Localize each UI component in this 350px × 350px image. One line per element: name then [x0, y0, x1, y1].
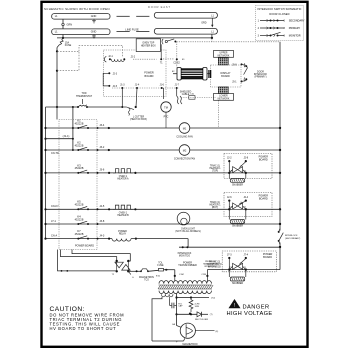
wire GRD arrow [211, 18, 213, 26]
svg-text:45222B: 45222B [75, 217, 84, 221]
svg-text:TRANSFORMER: TRANSFORMER [178, 264, 197, 267]
wire GRN link 2 [62, 26, 64, 29]
svg-text:TM: TM [164, 105, 168, 109]
svg-text:CAP: CAP [178, 305, 183, 308]
svg-text:THERMOSTAT: THERMOSTAT [76, 95, 93, 98]
node MON b [186, 246, 188, 248]
node J1-3 bottom [121, 106, 123, 108]
svg-text:GRN: GRN [67, 24, 73, 27]
relay K1 [75, 118, 105, 129]
capacitor HV CAP [169, 299, 171, 306]
svg-text:SNUBBER: SNUBBER [232, 283, 243, 285]
svg-text:J2-2: J2-2 [227, 156, 232, 159]
node B3 [56, 106, 58, 108]
svg-text:J4-5: J4-5 [99, 204, 105, 208]
motor M1 cooling fan [179, 123, 190, 134]
danger triangle [229, 299, 241, 308]
svg-text:C1M: C1M [179, 274, 184, 276]
wire row K4 [46, 223, 281, 225]
wire HV rail top [177, 297, 192, 299]
connector rail P2 left [52, 29, 110, 35]
ground G2 [92, 34, 96, 38]
node HV4 [190, 313, 192, 315]
wire row TOD left [46, 106, 79, 108]
wire heater drop [176, 42, 178, 68]
svg-text:J2-6: J2-6 [227, 196, 232, 199]
wire rail2 drop [211, 34, 213, 38]
node bus right y209.3 [279, 208, 281, 210]
pin J1-3 [121, 87, 123, 89]
svg-text:TRIAC (1): TRIAC (1) [210, 164, 221, 167]
wire row K7 [46, 238, 113, 240]
wire row K2 [46, 149, 281, 151]
svg-text:HEATER A: HEATER A [117, 178, 129, 181]
node A-J11 [44, 138, 46, 140]
svg-text:45222B: 45222B [75, 121, 84, 125]
svg-text:FUSE: FUSE [65, 44, 72, 47]
node K1 junction [108, 127, 110, 129]
wire FA lead [176, 314, 178, 326]
enclosure flag [57, 51, 79, 70]
svg-text:(F): (F) [216, 331, 219, 333]
inductor power relay coil [112, 239, 131, 242]
wire lower network drop [218, 100, 220, 127]
wire triac loop 2 [61, 250, 117, 262]
svg-text:HEATER B: HEATER B [117, 214, 129, 217]
wire bus B lower [56, 107, 58, 120]
svg-text:SECONDARY: SECONDARY [289, 20, 305, 23]
svg-text:BOARD: BOARD [259, 198, 268, 201]
node fuse out [165, 269, 167, 271]
component LOWER NETWORK label [214, 94, 234, 101]
svg-text:(HEAT OF BOX): (HEAT OF BOX) [130, 118, 147, 121]
svg-text:J1-6: J1-6 [159, 84, 164, 86]
wire PTC down [165, 112, 167, 128]
svg-text:(PRIMARY): (PRIMARY) [255, 76, 267, 79]
node A-K1 [44, 127, 46, 129]
svg-text:RECT-IF-IER: RECT-IF-IER [195, 319, 208, 321]
svg-text:DOOR CLOSED: DOOR CLOSED [269, 12, 289, 16]
svg-text:INTERLOCK SWITCH SCHEMATIC: INTERLOCK SWITCH SCHEMATIC [258, 7, 302, 11]
svg-text:INTERLOCK: INTERLOCK [204, 266, 217, 268]
wire xfmr top left [166, 269, 175, 271]
wire T1-E2 dashed [163, 58, 174, 60]
svg-text:OVEN TOP: OVEN TOP [142, 43, 154, 45]
wire module C out [246, 269, 280, 271]
enclosure dashed top [79, 45, 123, 56]
node bus right y247 [279, 246, 281, 248]
relay K7 [75, 229, 105, 240]
wire shielded dashed [181, 97, 216, 99]
switch heater box [165, 40, 167, 42]
wire triac bottom rail [58, 250, 117, 271]
svg-text:(SECONDARY): (SECONDARY) [285, 237, 301, 240]
svg-text:GND: GND [91, 15, 97, 18]
svg-text:CONVECTION FAN: CONVECTION FAN [174, 157, 196, 160]
transformer core [158, 285, 213, 289]
svg-text:J2-4: J2-4 [243, 196, 248, 199]
node relaycoil right [135, 238, 137, 240]
resistor heater element top [172, 68, 211, 81]
transformer filament coil [162, 294, 173, 297]
wire TCO right [148, 270, 159, 271]
node A-K7 [44, 238, 46, 240]
svg-text:J2-1: J2-1 [108, 56, 113, 58]
svg-text:M1: M1 [183, 126, 187, 130]
svg-text:GND: GND [91, 30, 97, 33]
svg-text:J4-3: J4-3 [99, 233, 105, 237]
wire row MON [179, 246, 280, 248]
wire triac row [128, 270, 141, 272]
svg-text:RELAY: RELAY [119, 233, 127, 236]
svg-text:MAGNETRON: MAGNETRON [139, 276, 154, 279]
transformer secondary coil [159, 291, 211, 294]
cable shielded [177, 96, 179, 104]
node rail3 [211, 37, 213, 39]
svg-text:HV BOARD TO SHORT OUT: HV BOARD TO SHORT OUT [50, 326, 117, 331]
node HV2 [190, 296, 192, 298]
wire module A out [246, 172, 280, 174]
svg-text:J7-1: J7-1 [51, 220, 56, 223]
svg-text:M2: M2 [183, 148, 187, 152]
wire main top [57, 37, 212, 39]
svg-text:TCO: TCO [144, 279, 149, 281]
svg-text:CN-K7: CN-K7 [51, 205, 59, 208]
node HV3 [175, 313, 177, 315]
relay K3 [75, 163, 105, 174]
svg-text:!: ! [234, 303, 235, 309]
node heaterB left [108, 208, 110, 210]
wire T1 up [160, 44, 162, 59]
svg-text:BOARD: BOARD [221, 75, 230, 78]
svg-text:INTERLOCK: INTERLOCK [254, 74, 268, 76]
svg-text:POWER BOARD: POWER BOARD [75, 245, 94, 248]
svg-text:J5-8: J5-8 [232, 64, 237, 66]
svg-text:J2-5: J2-5 [113, 86, 118, 88]
wire resistor to board [210, 73, 212, 75]
node HV1 [175, 296, 177, 298]
wire row K1 [46, 127, 281, 129]
diode D1 [197, 312, 202, 317]
svg-text:J2-8: J2-8 [243, 156, 248, 159]
wire C2M up [206, 270, 208, 276]
node heaterA right [134, 172, 136, 174]
wire magnetron bottom [152, 340, 184, 342]
svg-text:CN-A: CN-A [51, 235, 57, 238]
relay K2 [75, 140, 105, 151]
svg-text:45222B: 45222B [75, 203, 84, 207]
node B2 [56, 70, 58, 72]
svg-text:NETWORK: NETWORK [218, 98, 230, 100]
svg-text:(T2): (T2) [211, 298, 215, 300]
wire filament lead right [169, 297, 171, 299]
wire row K5 [46, 208, 230, 210]
svg-text:BOARD: BOARD [263, 256, 272, 259]
wire HV lead [176, 294, 178, 315]
switch L cutter [122, 106, 126, 108]
svg-text:GRD: GRD [201, 22, 207, 25]
svg-text:UPPER: UPPER [220, 53, 228, 55]
svg-text:J3-8: J3-8 [99, 219, 105, 223]
svg-text:HEATER BOX: HEATER BOX [141, 44, 156, 47]
relay module A [224, 154, 272, 187]
display board box [211, 65, 242, 87]
node J2-2 [123, 58, 125, 60]
svg-text:DOOR EAST: DOOR EAST [148, 5, 171, 9]
component UPPER NETWORK label [214, 51, 234, 58]
connector heater bracket [162, 39, 163, 44]
svg-text:(J1-1): (J1-1) [63, 134, 70, 138]
node J2-3 [108, 72, 110, 74]
thermistor PTC [161, 102, 171, 112]
pin J1-4 [136, 87, 138, 89]
wire rail2 dashed [117, 31, 130, 33]
node relaycoil left [108, 238, 110, 240]
svg-text:45222B: 45222B [75, 143, 84, 147]
component OVEN TOP HEATER BOX [136, 39, 160, 52]
relay module B [224, 193, 272, 228]
component upper network block [218, 58, 228, 65]
wire J1-1 [46, 138, 73, 140]
pin J1-7 [176, 87, 178, 89]
node triac out [136, 270, 138, 272]
border frame [42, 2, 308, 347]
connector edge C1 [104, 56, 106, 62]
svg-text:J3-6: J3-6 [99, 168, 105, 172]
svg-text:J1-4: J1-4 [135, 84, 140, 86]
terminal T1 [160, 58, 162, 60]
wire heater sw dashed [177, 41, 281, 43]
svg-text:LINE FUSE: LINE FUSE [125, 28, 139, 32]
component lower network block [218, 87, 228, 94]
motor M2 convection fan [179, 145, 190, 156]
svg-text:J1-3: J1-3 [120, 84, 125, 86]
wire GRN link [62, 19, 64, 23]
svg-text:(NOT ON ALL MODELS): (NOT ON ALL MODELS) [175, 230, 201, 233]
node K2 junction [108, 149, 110, 151]
svg-text:TRIAC (1): TRIAC (1) [210, 201, 221, 204]
node HV5 [189, 313, 191, 315]
relay K5 [75, 200, 105, 211]
wire row K7 right [131, 238, 188, 240]
svg-text:DANGER: DANGER [243, 305, 270, 311]
wire bus B upper [56, 48, 58, 108]
svg-text:(T): (T) [210, 314, 213, 316]
connector rail P2 right [154, 28, 217, 34]
svg-text:MON TDO: MON TDO [179, 255, 190, 258]
svg-text:PRIMARY: PRIMARY [289, 27, 301, 30]
svg-text:CN-TD: CN-TD [51, 152, 59, 155]
terminal GRN [62, 23, 64, 25]
svg-text:J3-4: J3-4 [99, 123, 105, 127]
triac Q1 [112, 260, 134, 279]
svg-text:J1-7: J1-7 [174, 84, 179, 86]
wire L1 drop [62, 35, 64, 38]
node bus right y172.9 [279, 172, 281, 174]
svg-text:45222B: 45222B [75, 232, 84, 236]
svg-text:HEATER 1: HEATER 1 [209, 203, 221, 206]
svg-text:45222B: 45222B [75, 166, 84, 170]
node bus right y150 [279, 149, 281, 151]
wire J1-7 drop [176, 88, 178, 96]
wire J1-3 drop [121, 88, 123, 107]
terminal E2 [176, 58, 178, 60]
terminal C1M [174, 275, 176, 277]
wire J2 dashed [133, 58, 157, 60]
node A-K4 [44, 223, 46, 225]
wire bus right [279, 42, 281, 270]
node A-K3 [44, 172, 46, 174]
node bus right y128 [279, 127, 281, 129]
power board 1 box [104, 50, 167, 97]
svg-text:J7-4: J7-4 [243, 253, 248, 256]
svg-text:HIGH VOLTAGE: HIGH VOLTAGE [227, 311, 273, 317]
heater element A [113, 169, 133, 173]
magnetron V1 [180, 323, 195, 338]
node heaterA left [108, 172, 110, 174]
svg-text:(TOP): (TOP) [212, 171, 218, 173]
svg-text:SNUBBER: SNUBBER [232, 184, 243, 186]
node L1 [62, 37, 64, 39]
wire J1-4 drop [136, 88, 137, 107]
wire module B out [246, 208, 280, 210]
label caution body [50, 312, 125, 331]
power board 2 box [59, 120, 97, 250]
wire HV rail bottom [177, 313, 198, 315]
thermostat TOD [77, 106, 79, 108]
switch interlock secondary [277, 224, 284, 245]
svg-text:COOLING FAN: COOLING FAN [176, 135, 193, 138]
wire rail1 dashed [117, 15, 130, 17]
svg-text:LOWER: LOWER [219, 96, 228, 98]
svg-text:J7-3: J7-3 [227, 253, 232, 256]
svg-text:SNUBBER: SNUBBER [232, 225, 243, 227]
svg-text:C2M: C2M [201, 274, 206, 276]
resistor bleed [189, 298, 193, 313]
switch door interlock primary [242, 63, 247, 66]
svg-text:J3-2: J3-2 [99, 145, 105, 149]
connector display left [210, 70, 212, 78]
svg-text:DOOR: DOOR [257, 71, 264, 73]
wire J1 row dashed [112, 87, 179, 89]
svg-text:NETWORK: NETWORK [218, 55, 230, 57]
svg-text:J2-3: J2-3 [113, 73, 118, 75]
node MON a [182, 246, 184, 248]
fuse F1 15A [57, 38, 63, 48]
wire J1-6 drop [163, 88, 165, 99]
svg-text:SCHEMATIC SHOWN WITH DOOR OPEN: SCHEMATIC SHOWN WITH DOOR OPEN [44, 7, 110, 11]
interlock switch schematic box [256, 6, 305, 41]
inductor L1 coil [111, 59, 124, 61]
svg-text:MONITOR: MONITOR [289, 35, 301, 38]
wire triac loop top [72, 250, 130, 262]
node A-K2 [44, 149, 46, 151]
svg-text:PTC: PTC [164, 116, 169, 119]
ground G1 [92, 19, 96, 23]
fuse TOL [159, 268, 164, 271]
transformer primary coil [159, 281, 211, 284]
svg-text:J2-2: J2-2 [131, 56, 136, 58]
svg-text:(BOT): (BOT) [212, 207, 218, 209]
connector rail P1 right [154, 12, 217, 18]
lamp oven light [177, 212, 190, 225]
svg-text:FUSE: FUSE [157, 265, 164, 267]
relay K4 [75, 214, 105, 225]
node heaterB right [134, 208, 136, 210]
wire filament lead left [152, 297, 162, 341]
node A-K5 [44, 208, 46, 210]
wire J2 bracket [103, 73, 109, 86]
node J2-5 [108, 85, 110, 87]
node J2-1 [109, 58, 111, 60]
wire K7 drop [187, 239, 189, 248]
svg-text:BOARD: BOARD [259, 159, 268, 162]
svg-text:BOARD: BOARD [145, 75, 154, 78]
svg-text:HEATER 1: HEATER 1 [209, 167, 221, 170]
svg-text:J5-1: J5-1 [232, 82, 237, 84]
connector rail P1 left [52, 14, 110, 20]
svg-text:MAGNETRON: MAGNETRON [183, 343, 198, 346]
wire row K3 [46, 172, 230, 174]
wire bus A [45, 107, 47, 238]
svg-text:INTERLOCK: INTERLOCK [285, 235, 298, 237]
heater element B [113, 205, 133, 209]
pin J1-6 [161, 87, 163, 89]
wire HV rail top right [191, 297, 209, 299]
thermal cutout MAGNETRON TCO [141, 269, 148, 272]
terminal C2M [206, 275, 208, 277]
relay module C [222, 251, 276, 285]
node bus right y224 [279, 223, 281, 225]
component C10 [189, 96, 195, 100]
wire row TOD right [87, 106, 122, 108]
node B1 [56, 50, 58, 52]
